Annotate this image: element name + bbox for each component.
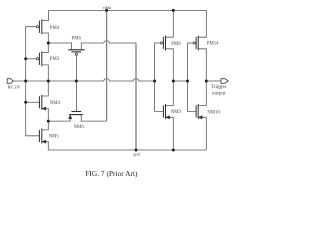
node A junction: [47, 42, 50, 45]
svg-text:NM9: NM9: [171, 110, 182, 115]
wire PM14 source to NM10 drain: [198, 49, 206, 106]
node PM9 drain at vdda: [172, 9, 175, 12]
wire NM4 source to NM5 drain: [42, 109, 49, 130]
wire PM9 drain to vdda: [166, 10, 174, 37]
wire gate bus left: [26, 27, 40, 136]
svg-text:NM4: NM4: [50, 101, 61, 106]
node gnd drop: [135, 149, 138, 152]
svg-text:PM6: PM6: [72, 36, 82, 41]
svg-text:output: output: [212, 91, 226, 97]
wire NM6 gate lead: [75, 81, 77, 112]
wire NM10 source to gnd: [198, 117, 206, 150]
transistor PM4: [36, 19, 41, 34]
wire trigger output: [206, 80, 221, 82]
wire NM5 source to gnd: [42, 142, 49, 150]
svg-text:NM10: NM10: [207, 111, 220, 116]
node inverter2 gate: [186, 80, 189, 83]
transistor NM9: [163, 104, 169, 119]
node RF inverter1 gate: [153, 80, 156, 83]
wire PM6 right arm to gnd drop: [81, 41, 136, 50]
transistor PM3: [36, 51, 41, 66]
svg-text:Trigger: Trigger: [211, 84, 227, 90]
svg-text:PM4: PM4: [50, 26, 60, 31]
transistor NM6: [69, 112, 83, 119]
node vdda tap: [105, 9, 108, 12]
svg-text:NM6: NM6: [74, 125, 85, 130]
wire RF input: [13, 80, 48, 82]
svg-text:vdda: vdda: [103, 5, 112, 10]
node NM6 left: [47, 120, 50, 123]
svg-text:NM5: NM5: [49, 135, 60, 140]
svg-text:gnd: gnd: [133, 151, 140, 156]
port trigger output: [221, 79, 228, 84]
svg-text:PM14: PM14: [207, 42, 219, 47]
transistor PM9: [160, 36, 165, 51]
wire RF node row with hops: [48, 79, 154, 81]
transistor NM4: [39, 95, 46, 110]
node NM9 source at gnd: [172, 149, 175, 152]
node inverter1 out: [172, 80, 175, 83]
transistor NM5: [39, 129, 46, 144]
transistor PM6: [68, 50, 84, 56]
wire NM6 left arm: [48, 115, 70, 122]
wire gate bus 1: [155, 43, 164, 111]
wire inverter1 out to gate bus 2: [173, 80, 187, 82]
wire PM9 source to NM9 drain: [166, 49, 174, 106]
wire PM3 source to RF node: [42, 65, 49, 81]
transistor NM10: [196, 104, 202, 119]
wire NM6 right arm: [81, 115, 106, 122]
node RF caps gate: [75, 80, 78, 83]
node bus NM4 gate: [24, 101, 27, 104]
wire PM3 gate: [26, 58, 37, 60]
wire PM14 drain to vdda: [198, 10, 206, 37]
wire NM4 gate: [26, 101, 40, 103]
wire NM4 drain to RF node: [42, 81, 49, 96]
wire gate bus 2: [188, 43, 197, 111]
port RF_IN: [7, 79, 13, 84]
node trigger out: [205, 80, 208, 83]
wire PM4 source to node A to PM3 drain: [42, 33, 49, 53]
svg-text:PM9: PM9: [171, 42, 181, 47]
node bus RF: [24, 80, 27, 83]
node bus PM3 gate: [24, 57, 27, 60]
wire PM6 gate lead: [75, 55, 77, 81]
gnd rail: [48, 149, 206, 151]
wire node A to PM6 left arm: [48, 43, 71, 50]
svg-text:FIG. 7 (Prior Art): FIG. 7 (Prior Art): [85, 169, 138, 178]
wire vdda tap vertical: [106, 10, 108, 121]
vdda rail: [49, 9, 207, 11]
node RF chain: [47, 80, 50, 83]
wire NM9 source to gnd: [166, 117, 174, 150]
wire PM6 drop to gnd vertical: [135, 43, 137, 150]
svg-text:PM3: PM3: [50, 57, 60, 62]
svg-text:RF_IN: RF_IN: [8, 85, 21, 90]
transistor PM14: [193, 36, 198, 51]
wire rail to PM4 drain: [42, 10, 49, 20]
